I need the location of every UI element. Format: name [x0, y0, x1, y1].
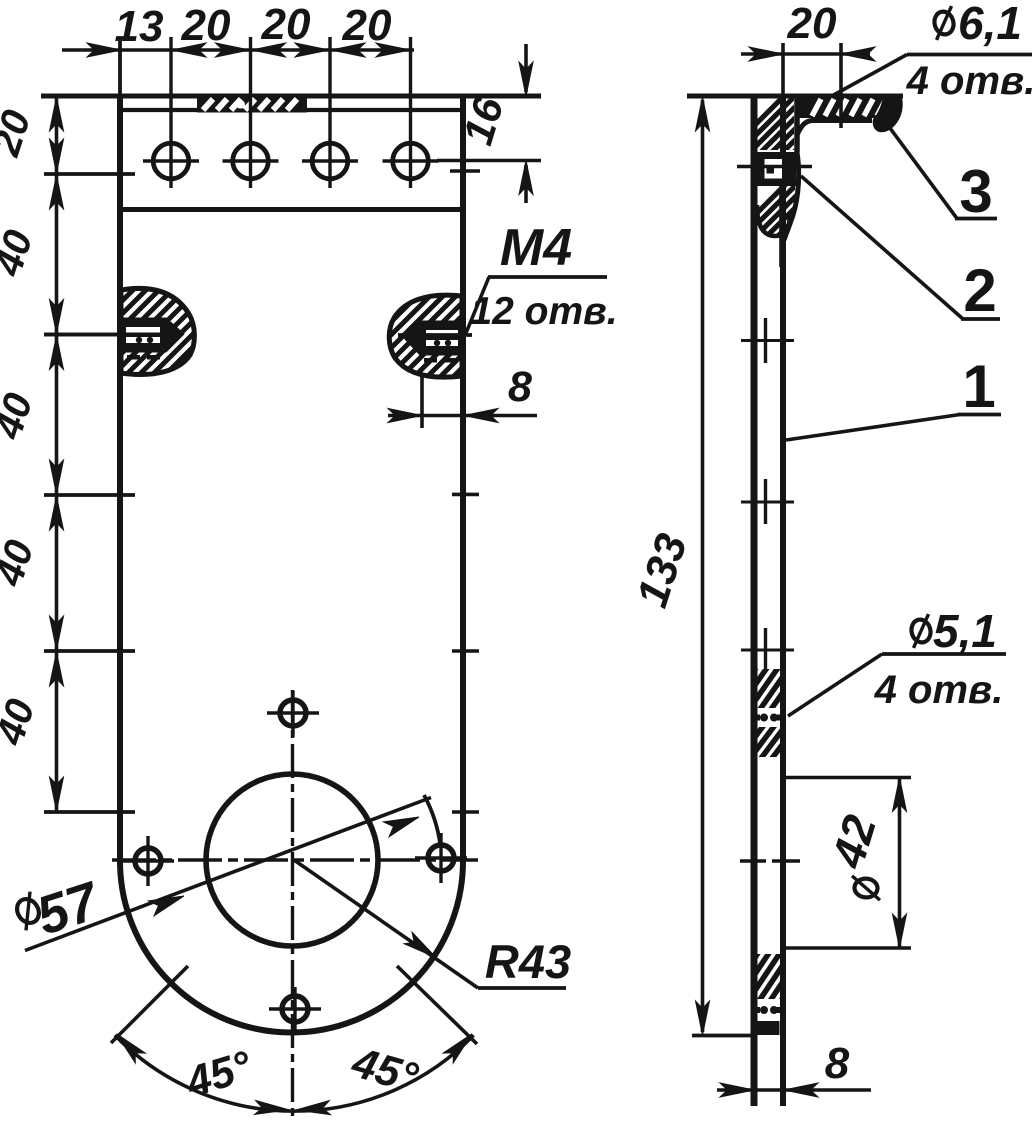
- front view: vertical centre line (dash-dot): [291, 690, 294, 1122]
- dimension text 133: [628, 528, 697, 613]
- text dia6.1: [932, 0, 1022, 49]
- front view: horizontal centre line (dash-dot): [112, 858, 478, 861]
- dimension 20 (side): dim line and arrows: [741, 47, 875, 61]
- front view: top hole 1 (dia 5.1): [143, 143, 199, 179]
- side view: plate right edge: [780, 96, 786, 1106]
- dimension 8 (side): dim line and arrows: [717, 1083, 871, 1097]
- dimension 133: bottom extension tick: [692, 1034, 757, 1038]
- dimension: chain arrows seg 40-3: [50, 496, 64, 650]
- dimension: chain arrows seg 40-4: [50, 652, 64, 811]
- svg-text:R43: R43: [485, 935, 571, 988]
- text 12 otv.: [470, 290, 617, 333]
- text 4 otv. (bottom): [874, 668, 1004, 712]
- dimension: left chain dim line: [55, 96, 59, 812]
- side view: angle leg right edge and insert boundary: [784, 98, 799, 240]
- text 45deg left: [180, 1042, 258, 1107]
- svg-text:5,1: 5,1: [933, 605, 997, 657]
- dimension: arrows at hole2 axis: [216, 43, 286, 57]
- text M4: [500, 219, 572, 277]
- front view: bottom bolt hole: [269, 987, 321, 1031]
- side view: nut hatch below band: [715, 165, 882, 255]
- front view: axis/extension line of top hole 4: [409, 37, 412, 188]
- front view: left insert centre line: [44, 333, 135, 337]
- svg-text:8: 8: [508, 363, 532, 411]
- svg-text:8: 8: [825, 1039, 850, 1088]
- dimension text 13: [115, 2, 164, 51]
- front view: axis/extension line of top hole 1: [169, 37, 172, 188]
- svg-text:12 отв.: 12 отв.: [470, 290, 617, 333]
- side view: centre cross tick at y=502: [741, 479, 794, 524]
- dimension: chain tick at y=812: [44, 810, 135, 814]
- side view: M4 hole centre tick: [737, 165, 812, 168]
- svg-text:2: 2: [963, 257, 996, 324]
- front view: tick on right edge at y=651: [452, 649, 479, 653]
- dimension text 16: [454, 91, 513, 150]
- text dia5.1: [909, 605, 997, 657]
- front view: tick on right edge at y=171: [450, 169, 480, 173]
- leader and label 1: [786, 353, 1001, 440]
- side view: nut bottom outline: [757, 205, 790, 236]
- svg-text:20: 20: [181, 1, 231, 50]
- front view: central hole circle (dia 42): [206, 774, 378, 946]
- dimension 20 (side): flange hole axis: [839, 43, 843, 128]
- dimension: chain tick at y=651: [44, 649, 135, 653]
- dimension: arrows at hole3 axis: [295, 43, 365, 57]
- side view: central hole centre line tick: [740, 859, 800, 862]
- dimension: arrow left of hole1 axis (13/20 shared): [172, 43, 206, 57]
- svg-text:13: 13: [115, 2, 164, 51]
- front view: right M4 threaded insert (section): [302, 290, 566, 385]
- dimension 8 (front): dim line and arrows: [388, 409, 537, 423]
- dimension text 20 (first): [181, 1, 231, 50]
- svg-text:3: 3: [959, 158, 992, 225]
- text 45deg right: [346, 1038, 423, 1103]
- dimension 16: lower extension line (hole centre line extended): [437, 159, 541, 163]
- front view: top bolt hole: [267, 691, 319, 737]
- dimension: chain arrows seg 20: [50, 97, 64, 173]
- front view: top hole 2 (dia 5.1): [223, 143, 279, 179]
- dimension text 20 (second): [261, 0, 311, 49]
- leader M4/12 otv.: [466, 277, 607, 333]
- svg-text:M4: M4: [500, 219, 572, 277]
- side view: nut band with thread hole: [756, 152, 796, 186]
- front view: top hole 3 (dia 5.1): [302, 143, 358, 179]
- front view: plate top edge (also extension line for top and left dims): [41, 94, 541, 99]
- dimension 45deg: right extension line: [397, 966, 477, 1044]
- svg-text:4 отв.: 4 отв.: [906, 59, 1034, 103]
- leader and label 2: [801, 176, 1000, 324]
- side view: centre cross tick at y=650: [741, 628, 794, 672]
- dimension 45deg: end arrows: [117, 1034, 473, 1063]
- front view: plate right edge: [460, 96, 466, 861]
- side view: centre cross tick at y=340.5: [741, 318, 794, 363]
- dimension: arrow at left edge (13): [87, 43, 121, 57]
- dimension text 8 (side): [825, 1039, 850, 1088]
- front view: left M4 threaded insert (section): [43, 285, 307, 380]
- side view: angle leg hatch: [715, 75, 882, 165]
- text 4 otv. (top): [906, 59, 1034, 103]
- leader dia6.1: [830, 55, 1032, 98]
- dimension 45deg: centre arrows: [255, 1100, 331, 1114]
- leader dia5.1: [788, 654, 1006, 716]
- side view: flange bottom edge and fillet: [797, 121, 872, 136]
- leader and label 3: [884, 120, 997, 225]
- dimension 45deg: arc: [115, 1035, 474, 1111]
- dimension: arrow at hole4 axis: [376, 43, 410, 57]
- dimension 45deg: left extension line: [111, 966, 188, 1043]
- dimension: chain tick at y=495: [44, 493, 135, 497]
- svg-text:20: 20: [342, 1, 392, 50]
- dimension dia42: extension lines: [786, 778, 911, 949]
- front view: axis/extension line of top hole 2: [249, 37, 252, 188]
- text dia42: [821, 809, 886, 904]
- leader dia57: arrowheads: [148, 817, 419, 916]
- side view: flange right end cap: [874, 98, 902, 132]
- text R43: [485, 935, 571, 988]
- dimension: chain arrows seg 40-1: [50, 175, 64, 334]
- side view: lower dia5.1 hole section hatch: [670, 884, 881, 1035]
- side view: top edge line: [687, 94, 903, 99]
- svg-text:20: 20: [787, 0, 837, 48]
- dimension text 20 (third): [342, 1, 392, 50]
- front view: right insert centre line: [398, 333, 472, 337]
- front view: plate left edge: [117, 37, 123, 861]
- dimension text 40 (row4): [0, 694, 43, 751]
- front view: left bolt hole: [122, 836, 174, 886]
- front view: tick on right edge at y=812: [452, 810, 479, 814]
- front view: top hole 4 (dia 5.1): [383, 143, 439, 179]
- front view: plate bottom arc R43: [120, 861, 463, 1033]
- dimension text 40 (row3): [0, 535, 42, 592]
- text dia57: [10, 870, 108, 947]
- side view: flange band with hatch: [798, 98, 886, 118]
- front view: top strip bottom line: [122, 207, 461, 212]
- dimension: top chain dim line: [62, 48, 414, 52]
- dimension text 40 (row1): [0, 225, 41, 282]
- front view: tick on right edge at y=494: [452, 493, 479, 497]
- svg-text:1: 1: [962, 353, 995, 420]
- dimension 8 (front): extension line: [420, 376, 424, 428]
- front view: axis/extension line of top hole 3: [328, 37, 331, 188]
- side view: M4 screw axis: [781, 43, 783, 267]
- side view: plate left edge: [751, 96, 758, 1106]
- side view: upper dia5.1 hole section hatch: [670, 599, 881, 777]
- dimension 16: dim line with arrows: [519, 44, 533, 203]
- dimension text 40 (row2): [0, 388, 41, 445]
- leader dia57: diameter line: [25, 798, 431, 951]
- dimension: chain tick at y=174: [44, 172, 135, 176]
- svg-text:4 отв.: 4 отв.: [874, 668, 1004, 712]
- dimension: chain arrows seg 40-2: [50, 336, 64, 495]
- svg-text:6,1: 6,1: [958, 0, 1022, 49]
- front view: right bolt hole: [415, 833, 467, 883]
- dimension: chain tick at y=334.5: [44, 333, 135, 337]
- dimension text 8 (front): [508, 363, 532, 411]
- dimension text 20 (side): [787, 0, 837, 48]
- leader R43: radius line with arrow: [294, 860, 566, 988]
- svg-text:20: 20: [261, 0, 311, 49]
- dimension 133: dim line with arrows: [696, 97, 710, 1035]
- dimension text 20 (left chain): [0, 105, 39, 162]
- front view: angle flange edge band with section hatch: [121, 97, 461, 113]
- front view: bolt-circle arc segment: [424, 795, 441, 846]
- dimension dia42: dim line and arrows: [893, 778, 907, 949]
